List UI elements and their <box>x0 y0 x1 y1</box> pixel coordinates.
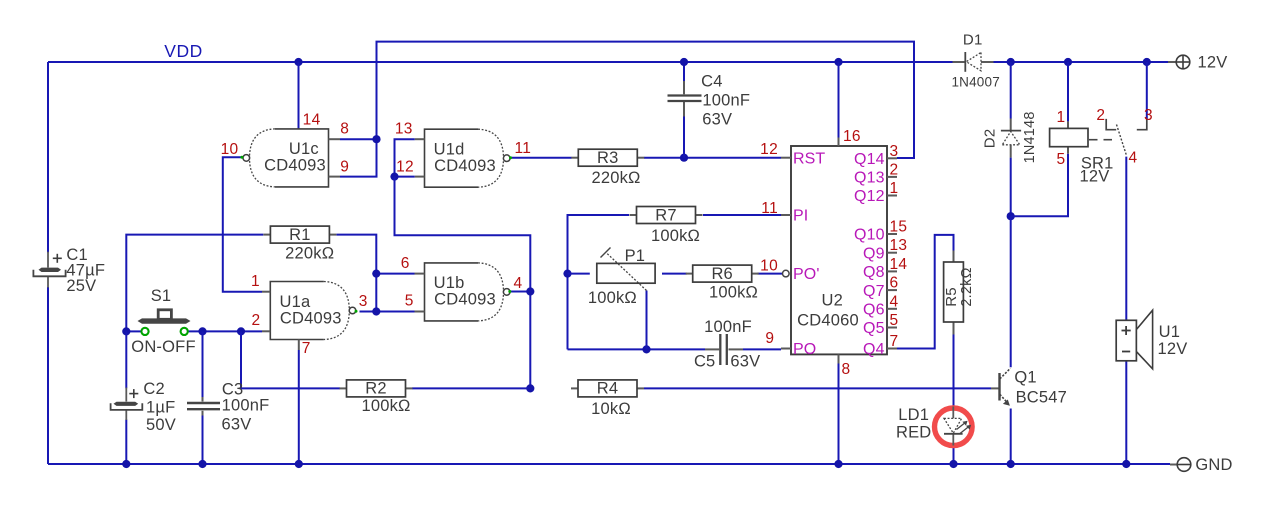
relay SR1 switch contacts <box>1106 119 1147 156</box>
wire U1c pin 9 to junction column <box>340 139 377 176</box>
svg-text:R5: R5 <box>943 287 960 307</box>
svg-text:C4: C4 <box>701 73 723 91</box>
junction U1d inputs <box>390 173 398 181</box>
pin Q4 of U2 with number 7 <box>863 333 898 358</box>
wire bottom RC row to C5 <box>568 348 706 350</box>
svg-text:220kΩ: 220kΩ <box>591 169 640 187</box>
svg-text:R4: R4 <box>597 380 619 398</box>
capacitor C2 1uF electrolytic <box>111 380 176 434</box>
svg-text:5: 5 <box>890 312 899 329</box>
svg-text:Q14: Q14 <box>854 151 885 168</box>
wire C3 top lead <box>202 331 204 397</box>
wire speaker bottom to GND <box>1125 361 1127 464</box>
svg-text:1: 1 <box>1057 109 1066 126</box>
pin Q9 of U2 with number 13 <box>863 237 907 262</box>
junction C4 at VDD rail <box>680 58 688 66</box>
svg-text:11: 11 <box>761 200 778 217</box>
svg-text:1µF: 1µF <box>146 398 175 416</box>
svg-text:15: 15 <box>890 219 908 236</box>
led LD1 RED with highlight ring <box>896 406 972 446</box>
svg-text:100kΩ: 100kΩ <box>361 397 410 415</box>
wire R2 to R4 row <box>412 387 530 389</box>
svg-text:3: 3 <box>1144 107 1153 124</box>
svg-text:Q10: Q10 <box>854 227 885 244</box>
svg-text:GND: GND <box>1195 456 1232 474</box>
junction pin 7 at GND rail <box>295 460 303 468</box>
wire P1 to R6 <box>662 273 687 275</box>
svg-text:2: 2 <box>890 161 899 178</box>
wire U1a pin 7 ground <box>298 350 300 464</box>
svg-text:9: 9 <box>765 330 774 347</box>
svg-text:4: 4 <box>890 293 899 310</box>
wire D2 bottom to relay pin 5 node <box>1010 158 1012 217</box>
svg-text:C5: C5 <box>694 353 716 371</box>
svg-text:Q9: Q9 <box>863 245 885 262</box>
wire VDD rail top <box>48 61 953 63</box>
svg-text:CD4093: CD4093 <box>280 309 342 327</box>
svg-text:RST: RST <box>793 151 825 168</box>
capacitor C5 100nF <box>694 318 760 371</box>
capacitor C3 100nF <box>187 380 269 433</box>
svg-text:U1a: U1a <box>279 293 310 311</box>
transistor Q1 BC547 <box>991 368 1067 406</box>
wire LED cathode to GND <box>953 445 955 464</box>
svg-text:U1d: U1d <box>434 141 465 159</box>
svg-text:1: 1 <box>890 180 899 197</box>
junction pin 8 at GND rail <box>834 460 842 468</box>
nand gate U1d <box>425 129 511 187</box>
resistor R7 <box>630 206 703 245</box>
svg-text:12V: 12V <box>1198 53 1228 71</box>
svg-text:R2: R2 <box>365 380 387 398</box>
svg-text:13: 13 <box>395 121 413 138</box>
svg-text:100nF: 100nF <box>704 318 752 336</box>
svg-text:2: 2 <box>1096 107 1105 124</box>
svg-text:Q6: Q6 <box>863 302 885 319</box>
capacitor C1 47uF electrolytic <box>33 246 105 295</box>
terminal 12V <box>1168 53 1227 71</box>
svg-text:11: 11 <box>514 140 531 157</box>
junction U1a pin 2 / R2 branch <box>237 327 245 335</box>
wire R7 right to U2 PI pin 11 <box>703 214 781 216</box>
svg-text:50V: 50V <box>146 416 176 434</box>
svg-text:R6: R6 <box>711 265 733 283</box>
relay SR1 coil <box>1050 121 1114 185</box>
wire P1 wiper down <box>646 291 648 350</box>
svg-text:VDD: VDD <box>164 41 202 61</box>
svg-text:13: 13 <box>890 237 908 254</box>
wire U1d inputs down to U1b output column <box>395 177 531 389</box>
wire C5 right to U2 PO pin 9 <box>743 348 781 350</box>
svg-text:D2: D2 <box>982 129 999 149</box>
svg-text:25V: 25V <box>66 277 96 295</box>
pin Q13 of U2 with number 2 <box>854 161 898 186</box>
wire GND bottom rail <box>48 463 1170 465</box>
resistor R3 <box>571 149 644 187</box>
wire U1b pin 4 output to column <box>510 291 531 293</box>
svg-text:Q5: Q5 <box>863 320 885 337</box>
wire switch pin 3 from rail <box>1146 62 1148 119</box>
wire U1d pin 11 output to R3 <box>510 157 571 159</box>
svg-text:2.2kΩ: 2.2kΩ <box>959 267 975 306</box>
svg-text:7: 7 <box>302 340 311 357</box>
svg-text:S1: S1 <box>151 287 172 305</box>
svg-text:100kΩ: 100kΩ <box>588 289 637 307</box>
svg-text:7: 7 <box>890 333 899 350</box>
svg-text:R1: R1 <box>289 226 311 244</box>
junction U2 pin 16 at VDD rail <box>834 58 842 66</box>
potentiometer P1 100k <box>588 247 655 307</box>
wire U2 pin 8 ground <box>838 364 840 465</box>
wire R4 right to Q1 base <box>644 387 991 389</box>
junction P1 wiper at RC row <box>642 345 650 353</box>
svg-text:U1: U1 <box>1159 323 1181 341</box>
svg-text:4: 4 <box>1129 149 1138 166</box>
svg-text:100nF: 100nF <box>222 397 270 415</box>
svg-text:16: 16 <box>843 128 861 145</box>
junction LED at GND rail <box>949 460 957 468</box>
nand gate U1b <box>425 263 511 321</box>
capacitor C4 100nF <box>668 73 751 129</box>
svg-text:LD1: LD1 <box>898 406 929 424</box>
wire R7 left down the P1 column <box>568 215 630 349</box>
svg-text:PO': PO' <box>793 266 819 283</box>
svg-text:P1: P1 <box>625 247 646 265</box>
wire R5 bottom to LED anode <box>953 335 955 408</box>
wire R1 left to S1 row <box>126 235 263 332</box>
gate pin stubs U1c <box>329 139 341 176</box>
pin Q10 of U2 with number 15 <box>854 219 907 244</box>
svg-text:Q7: Q7 <box>863 283 885 300</box>
wire relay coil pin 1 from rail <box>1067 62 1069 121</box>
svg-text:12: 12 <box>760 141 778 158</box>
wire U1d pin 13 input <box>395 139 415 176</box>
resistor R6 <box>686 265 759 301</box>
wire R3 right to U2 RST pin 12 <box>644 157 781 159</box>
wire U2 Q4 pin 7 to R5 top <box>897 235 954 349</box>
svg-text:12V: 12V <box>1158 340 1188 358</box>
junction P1 left <box>563 270 571 278</box>
junction U1a pin 3 <box>372 307 380 315</box>
pin Q7 of U2 with number 6 <box>863 275 898 300</box>
resistor R1 <box>263 226 336 263</box>
gate pin stubs U1b <box>415 274 425 312</box>
svg-text:CD4093: CD4093 <box>434 291 496 309</box>
wire VDD left rail down to C1 <box>47 62 49 253</box>
nand gate U1a <box>270 282 356 340</box>
wire U2 pin 16 power <box>838 62 840 138</box>
diode D1 1N4007 <box>951 32 1000 90</box>
wire U1c pin 14 power <box>298 62 300 129</box>
junction relay coil pin 1 at 12V rail <box>1064 58 1072 66</box>
svg-text:14: 14 <box>890 256 908 273</box>
svg-text:C3: C3 <box>222 380 244 398</box>
ic U2 CD4060 <box>791 146 887 354</box>
resistor R4 <box>571 380 644 418</box>
junction U1b pin 6 <box>372 270 380 278</box>
junction U1c inputs <box>372 135 380 143</box>
svg-text:Q4: Q4 <box>863 341 885 358</box>
svg-text:U2: U2 <box>822 292 844 310</box>
svg-text:Q13: Q13 <box>854 170 885 187</box>
junction switch pin 3 at 12V rail <box>1143 58 1151 66</box>
svg-text:PO: PO <box>793 341 816 358</box>
svg-text:12V: 12V <box>1080 167 1110 185</box>
wire R1 right to U1b inputs column <box>337 235 377 312</box>
svg-text:5: 5 <box>1057 151 1066 168</box>
junction U1c pin 14 at VDD rail <box>294 58 302 66</box>
svg-text:RED: RED <box>896 424 931 442</box>
nand gate U1c <box>243 129 329 187</box>
svg-text:CD4093: CD4093 <box>434 157 496 175</box>
svg-text:12: 12 <box>396 159 414 176</box>
terminal GND <box>1170 456 1233 474</box>
svg-text:10: 10 <box>221 141 239 158</box>
wire C3 bottom to GND <box>202 415 204 464</box>
svg-text:10kΩ: 10kΩ <box>591 400 631 418</box>
wire R6 to U2 PO' pin 10 <box>758 273 783 275</box>
junction C3 at GND rail <box>198 460 206 468</box>
svg-text:D1: D1 <box>963 32 983 49</box>
wire S1 row right to U1a pin 2 <box>188 330 262 332</box>
pin Q5 of U2 with number 5 <box>863 312 898 337</box>
svg-text:U1c: U1c <box>289 140 319 158</box>
svg-text:6: 6 <box>401 255 410 272</box>
wire C2 bottom to GND <box>125 420 127 465</box>
wire 12V rail right of D1 <box>994 61 1169 63</box>
wire D2 top lead <box>1010 62 1012 119</box>
svg-text:C2: C2 <box>143 380 165 398</box>
U2 left pin stubs <box>781 138 839 364</box>
svg-text:10: 10 <box>760 258 778 275</box>
svg-text:100kΩ: 100kΩ <box>709 283 758 301</box>
svg-text:63V: 63V <box>222 416 252 434</box>
wire U1a pin 3 to U1b pin 5 <box>360 311 415 313</box>
svg-text:1N4007: 1N4007 <box>951 75 1000 90</box>
pin Q14 of U2 with number 3 <box>854 143 898 168</box>
junction speaker at GND rail <box>1122 460 1130 468</box>
wire P1 left lead <box>568 273 590 275</box>
svg-text:8: 8 <box>842 361 851 378</box>
svg-text:63V: 63V <box>702 110 732 128</box>
resistor R5 2.2k vertical <box>943 251 975 335</box>
svg-text:1: 1 <box>251 273 260 290</box>
wire Q1 collector up to relay node <box>1010 216 1012 367</box>
wire relay pin 5 down and left <box>1011 154 1068 217</box>
svg-text:R3: R3 <box>597 149 619 167</box>
wire S1 row left <box>126 330 141 332</box>
junction C2 at GND rail <box>122 460 130 468</box>
svg-text:220kΩ: 220kΩ <box>285 245 334 263</box>
switch S1 push button ON-OFF <box>131 287 195 356</box>
wire C1 bottom to GND rail <box>47 287 49 464</box>
svg-text:2: 2 <box>252 312 261 329</box>
wire C4 top lead from VDD <box>683 62 685 81</box>
pin Q6 of U2 with number 4 <box>863 293 898 318</box>
svg-text:100kΩ: 100kΩ <box>651 227 700 245</box>
svg-text:8: 8 <box>340 121 349 138</box>
wire U1d pin 12 input <box>395 176 415 178</box>
wire U1c pin 8 to junction <box>340 138 377 140</box>
wire switch pin 4 down to speaker <box>1125 157 1127 321</box>
bubble U2 PO' pin <box>783 270 790 277</box>
resistor R2 <box>340 380 413 415</box>
svg-text:9: 9 <box>340 158 349 175</box>
wire pin2 branch down to R2 row <box>241 331 340 388</box>
wire Q1 emitter to GND <box>1010 409 1012 465</box>
svg-text:3: 3 <box>890 143 899 160</box>
svg-text:100nF: 100nF <box>702 92 750 110</box>
wire C2 top lead <box>125 331 127 388</box>
junction D2 top at 12V rail <box>1007 58 1015 66</box>
speaker U1 12V <box>1116 310 1187 369</box>
svg-text:PI: PI <box>793 208 808 225</box>
svg-text:BC547: BC547 <box>1016 389 1067 407</box>
svg-text:CD4093: CD4093 <box>264 157 326 175</box>
pin Q8 of U2 with number 14 <box>863 256 907 281</box>
junction S1 left / C2 <box>122 327 130 335</box>
junction C4 bottom <box>680 154 688 162</box>
svg-text:Q8: Q8 <box>863 264 885 281</box>
svg-text:3: 3 <box>359 293 368 310</box>
wire U1c pin 10 output to U1a pin 1 <box>223 157 262 291</box>
svg-text:5: 5 <box>405 293 414 310</box>
green wire-end markers at gate outputs <box>240 156 512 313</box>
svg-text:U1b: U1b <box>434 274 465 292</box>
svg-text:CD4060: CD4060 <box>797 312 859 330</box>
svg-text:6: 6 <box>890 275 899 292</box>
svg-text:Q1: Q1 <box>1014 368 1036 386</box>
junction Q1 emitter at GND rail <box>1007 460 1015 468</box>
wire C4 bottom lead to RST row <box>683 116 685 158</box>
svg-text:Q12: Q12 <box>854 188 885 205</box>
pin Q12 of U2 with number 1 <box>854 180 898 205</box>
svg-text:14: 14 <box>303 112 321 129</box>
wire U1b pin 6 input <box>376 273 414 275</box>
junction R2/R4 row at column <box>526 384 534 392</box>
diode D2 1N4148 <box>982 111 1039 163</box>
svg-text:4: 4 <box>514 275 523 292</box>
junction D2 / relay pin5 / Q1 collector <box>1007 212 1015 220</box>
gate pin stubs U1a <box>262 292 299 350</box>
junction U1b output <box>526 287 534 295</box>
svg-text:63V: 63V <box>730 353 760 371</box>
wire Q14 top feedback rail <box>377 42 915 158</box>
svg-text:1N4148: 1N4148 <box>1022 111 1038 163</box>
svg-text:ON-OFF: ON-OFF <box>131 338 195 356</box>
gate pin stubs U1d <box>415 139 425 176</box>
svg-text:R7: R7 <box>655 206 677 224</box>
junction C3 top <box>198 327 206 335</box>
